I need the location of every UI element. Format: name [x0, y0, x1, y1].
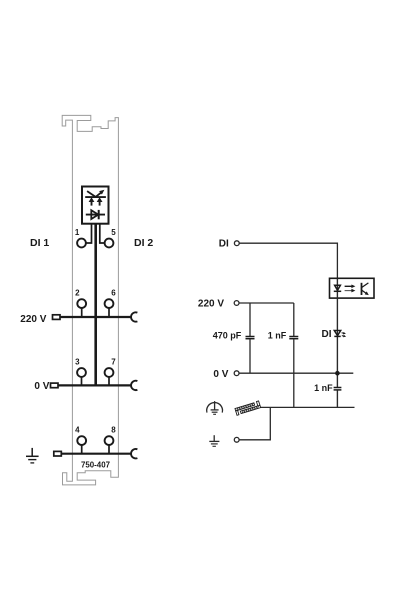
ground symbol (module): [26, 448, 39, 463]
terminal 8: [105, 426, 117, 454]
internal bus wire: [94, 224, 97, 386]
DI input terminal: [234, 241, 239, 246]
220V wire: [239, 302, 294, 304]
svg-text:1 nF: 1 nF: [314, 383, 333, 393]
wire terminal 5 to U1: [100, 224, 105, 243]
220V terminal: [234, 301, 239, 306]
0V connector tab: [51, 383, 59, 388]
junction node: [335, 371, 340, 376]
0V socket arc: [131, 381, 137, 390]
svg-text:DI 1: DI 1: [30, 237, 49, 249]
svg-text:2: 2: [75, 288, 80, 297]
220V socket arc: [131, 312, 137, 321]
wire DI to optocoupler: [239, 243, 337, 278]
earth socket arc: [131, 449, 137, 458]
diode symbol in U1: [86, 210, 105, 219]
earth ground symbol (schematic): [209, 435, 219, 446]
capacitor 1 nF (right): [314, 383, 341, 393]
svg-text:0 V: 0 V: [213, 369, 228, 380]
svg-text:470 pF: 470 pF: [213, 331, 242, 341]
optocoupler box U2: [330, 278, 375, 298]
shield rail wire: [261, 406, 355, 408]
220V connector tab: [53, 315, 61, 320]
wire below 1nF right: [336, 390, 338, 407]
capacitor 1 nF (left): [268, 331, 299, 341]
label 220 V (module): [20, 314, 46, 325]
terminal 1: [75, 228, 86, 247]
svg-text:4: 4: [75, 426, 80, 435]
svg-text:5: 5: [111, 228, 116, 237]
wire terminal 1 to U1: [86, 224, 92, 243]
optocoupler LED: [334, 285, 341, 291]
functional earth symbol: [207, 401, 223, 414]
0V terminal: [234, 371, 239, 376]
earth rail wire: [62, 453, 132, 455]
terminal 4: [75, 426, 86, 454]
svg-text:1 nF: 1 nF: [268, 331, 287, 341]
wire 1nF branch upper: [293, 303, 295, 336]
0V power rail wire: [58, 384, 131, 386]
svg-text:6: 6: [111, 288, 116, 297]
earth connector tab: [54, 451, 62, 456]
wire 470pF branch upper: [249, 303, 251, 336]
shield drop wire: [239, 407, 270, 439]
terminal 6: [105, 288, 117, 317]
wire 1nF branch lower to shield rail: [293, 339, 295, 407]
svg-text:DI 2: DI 2: [134, 237, 153, 249]
svg-text:8: 8: [111, 426, 116, 435]
earth terminal: [234, 437, 239, 442]
0V wire: [239, 372, 353, 374]
svg-text:0 V: 0 V: [34, 381, 49, 392]
AC indicator symbol in U1: [85, 190, 106, 206]
status LED DI: [334, 331, 346, 338]
svg-text:3: 3: [75, 357, 80, 366]
label 0 V (module): [34, 381, 49, 392]
label DI 2: [134, 237, 153, 249]
module outline 750-407: [62, 115, 118, 485]
label 220 V (schematic): [198, 298, 224, 309]
label 0 V (schematic): [213, 369, 228, 380]
capacitor 470 pF: [213, 331, 255, 341]
wire through optocoupler down to capacitor: [336, 278, 338, 387]
svg-text:7: 7: [111, 357, 116, 366]
terminal 7: [105, 357, 117, 385]
optocoupler phototransistor: [362, 283, 369, 295]
svg-text:DI: DI: [322, 329, 332, 340]
svg-text:DI: DI: [219, 239, 229, 250]
wire 470pF branch lower: [249, 339, 251, 373]
label DI 1: [30, 237, 49, 249]
terminal 5: [105, 228, 117, 247]
function block U1: [82, 187, 109, 224]
label 750-407: [81, 461, 111, 470]
label DI: [219, 239, 229, 250]
svg-text:220 V: 220 V: [20, 314, 46, 325]
terminal 3: [75, 357, 86, 385]
label DI at status LED: [322, 329, 332, 340]
DIN rail symbol: [235, 401, 261, 415]
terminal 2: [75, 288, 86, 317]
optocoupler light arrows: [345, 285, 356, 293]
svg-text:220 V: 220 V: [198, 298, 224, 309]
220V power rail wire: [60, 316, 131, 318]
svg-text:1: 1: [75, 228, 80, 237]
svg-text:750-407: 750-407: [81, 461, 111, 470]
